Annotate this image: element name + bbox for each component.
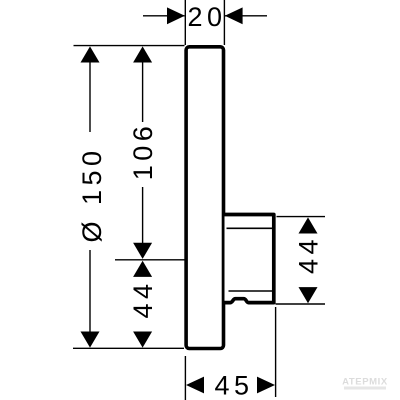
- dimension Ø150 line lower: [89, 250, 91, 333]
- dimension 106 line lower: [142, 187, 144, 244]
- svg-text:45: 45: [214, 371, 253, 400]
- wire: right 44 bottom extension: [276, 303, 326, 305]
- arrow: Ø150 up: [81, 46, 100, 62]
- arrow: right 44 up: [299, 217, 318, 233]
- wire: bottom-left extension hline: [73, 347, 184, 349]
- arrow: left 44 down: [133, 332, 152, 348]
- svg-text:44: 44: [128, 279, 158, 318]
- wire: dim 20 right tail: [225, 15, 267, 17]
- dimension Ø150 line upper: [89, 61, 91, 132]
- dimension 106 line upper: [142, 61, 144, 122]
- svg-text:Ø 150: Ø 150: [77, 146, 107, 242]
- wire: right 44 top extension: [277, 216, 326, 218]
- arrow: 106 down: [133, 243, 152, 259]
- arrow: dim 20 left: [167, 7, 185, 24]
- arrow: 106 up: [133, 46, 152, 62]
- arrow: Ø150 down: [81, 332, 100, 348]
- valve body inner line top: [227, 227, 273, 229]
- svg-text:44: 44: [294, 235, 324, 274]
- svg-text:20: 20: [187, 2, 226, 32]
- valve body outline: [225, 215, 274, 303]
- arrow: right 44 down: [299, 287, 318, 303]
- wire: extension line above plate right: [223, 0, 225, 45]
- wire: dim 20 left tail: [143, 15, 185, 17]
- wire: top-left extension hline: [74, 45, 185, 47]
- svg-text:ATEPMIX: ATEPMIX: [342, 377, 388, 388]
- arrow: dim 45 left: [186, 377, 204, 394]
- wire: centerline extension hline: [115, 259, 185, 261]
- wire: dim 45 right extension: [275, 307, 277, 397]
- wire: extension line above plate left: [184, 0, 186, 45]
- valve body inner line bottom: [229, 290, 273, 292]
- plate body outline: [186, 47, 223, 349]
- svg-text:106: 106: [128, 122, 158, 181]
- arrow: dim 45 right: [257, 377, 275, 394]
- arrow: left 44 up: [133, 261, 152, 277]
- arrow: dim 20 right: [225, 7, 243, 24]
- wire: dim 45 left extension: [184, 356, 186, 400]
